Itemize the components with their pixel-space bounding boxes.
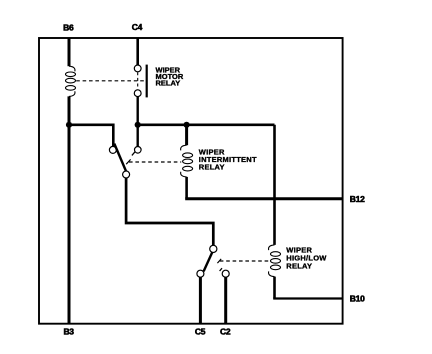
motor relay contact terminal bottom xyxy=(134,90,141,97)
svg-text:WIPERMOTORRELAY: WIPERMOTORRELAY xyxy=(156,65,184,87)
intermittent switch blade xyxy=(114,144,126,171)
svg-text:B12: B12 xyxy=(350,194,365,204)
svg-text:C5: C5 xyxy=(195,327,206,337)
coil L2 wiper intermittent relay coil xyxy=(181,145,193,177)
dashed actuator link from intermittent coil to switch xyxy=(129,161,181,163)
wire intermittent coil down to B12 line xyxy=(185,177,188,199)
high-low switch alternate throw stub xyxy=(220,268,222,271)
wire C2 from switch right terminal to bottom border xyxy=(224,277,227,324)
wire C4 contact to bus and down to switch contact xyxy=(136,97,138,147)
wire C5 from switch left terminal to bottom border xyxy=(199,277,202,324)
dashed actuator link from high-low coil to switch xyxy=(220,260,270,262)
svg-text:C4: C4 xyxy=(132,22,143,32)
junction at C4 line and bus xyxy=(135,122,141,128)
wire C4 from top border down to contact xyxy=(136,38,139,65)
svg-text:C2: C2 xyxy=(220,327,231,337)
wire from intermittent switch common down and right to high-low switch xyxy=(126,178,213,245)
wire bus tap down to intermittent relay coil xyxy=(185,125,188,145)
wire B6 from top border down to coil xyxy=(68,38,71,66)
connector outline frame xyxy=(39,38,343,324)
intermittent switch common terminal xyxy=(123,171,130,178)
bus wire from C4 junction to high-low relay branch xyxy=(138,124,275,127)
wire high-low coil down to B10 line xyxy=(273,277,276,299)
junction at intermittent coil tap xyxy=(184,122,190,128)
intermittent switch contact right terminal xyxy=(135,147,142,154)
wire B10 to right border xyxy=(273,297,342,299)
bus wire from B6 junction to left switch contact xyxy=(69,125,113,147)
svg-text:B10: B10 xyxy=(350,294,365,304)
high-low switch common terminal xyxy=(210,245,217,252)
coil L1 wiper motor relay coil xyxy=(66,66,76,96)
wire bus branch down to high-low relay coil xyxy=(273,125,276,245)
high-low switch blade xyxy=(204,252,213,271)
svg-text:B3: B3 xyxy=(63,327,74,337)
wire B12 to right border xyxy=(185,197,342,200)
actuator tick at high-low switch xyxy=(217,259,221,263)
junction at B6 line and bus xyxy=(66,122,72,128)
actuator tick at intermittent switch xyxy=(126,159,130,164)
dashed contact path between terminals xyxy=(137,72,139,89)
svg-text:B6: B6 xyxy=(63,22,74,32)
intermittent switch contact left terminal xyxy=(109,146,116,153)
high-low switch right terminal xyxy=(222,270,229,277)
intermittent switch alternate throw stub xyxy=(132,152,135,156)
wire B6/B3 from coil down to bottom border xyxy=(68,96,71,323)
dashed actuator link from motor relay coil to contact bar xyxy=(76,80,145,82)
motor relay contact armature bar xyxy=(146,65,148,98)
coil L3 wiper high-low relay coil xyxy=(269,245,281,277)
high-low switch left terminal xyxy=(197,270,204,277)
motor relay contact terminal top xyxy=(134,65,141,72)
